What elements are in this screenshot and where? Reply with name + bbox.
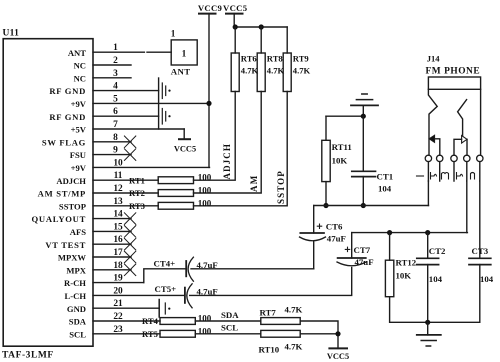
wire pin 16 VT TEST <box>93 243 131 245</box>
junction dot pin5/VCC9 <box>206 101 211 106</box>
svg-text:100: 100 <box>198 186 212 196</box>
capacitor CT2 104 <box>417 233 446 323</box>
connector J14 FM PHONE label <box>426 54 481 77</box>
svg-text:RT1: RT1 <box>129 175 145 185</box>
wire pin 2 NC <box>93 64 131 66</box>
svg-text:4.7K: 4.7K <box>267 66 285 76</box>
svg-text:RT4: RT4 <box>142 316 159 326</box>
svg-text:CT6: CT6 <box>326 222 343 232</box>
resistor RT5 100 <box>142 326 212 339</box>
wire pin 6 RF GND <box>93 115 159 117</box>
wire jack pin5 to CT3 and ground <box>479 181 481 322</box>
svg-text:VCC9: VCC9 <box>198 3 223 13</box>
chassis ground symbol at pin 21 <box>159 300 170 318</box>
svg-text:FM PHONE: FM PHONE <box>426 67 481 77</box>
resistor RT3 100 <box>129 198 212 211</box>
wire SCL to RT10 <box>195 333 260 335</box>
junction dot CT2 top <box>425 230 430 235</box>
chassis ground symbol at pin 4 <box>162 83 170 99</box>
svg-text:TAF-3LMF: TAF-3LMF <box>2 351 54 361</box>
junction dot rail RT8 <box>259 24 264 29</box>
svg-text:1: 1 <box>171 30 176 40</box>
X mark pin 15 <box>124 226 135 238</box>
junction dot rail RT6 <box>233 24 238 29</box>
svg-text:U11: U11 <box>3 29 20 39</box>
jack sleeve wire (body right edge) <box>480 89 482 155</box>
X mark pin 14 <box>124 213 135 225</box>
wire jack pin4 to net B <box>466 181 468 233</box>
wire RT11/CT1 top tie <box>326 115 363 117</box>
power symbol VCC5 at pin 7 <box>174 139 196 153</box>
resistor RT11 10K <box>322 116 352 205</box>
wire pin 7 drop <box>183 129 185 139</box>
svg-text:ADJCH: ADJCH <box>56 176 86 186</box>
wire pin 10 +9V <box>93 166 210 168</box>
svg-text:RT6: RT6 <box>241 54 258 64</box>
svg-text:RT2: RT2 <box>129 188 145 198</box>
svg-text:10K: 10K <box>396 271 412 281</box>
wire pin 13 SSTOP <box>93 205 158 207</box>
power symbol VCC5 bottom <box>327 348 349 361</box>
svg-text:AM: AM <box>249 175 259 192</box>
svg-text:ADJCH: ADJCH <box>222 143 232 180</box>
wire SSTOP net RT9 to RT3 <box>194 92 288 206</box>
X mark pin 18 <box>124 264 135 276</box>
jack pin circle 3 <box>451 155 457 161</box>
svg-text:100: 100 <box>198 314 212 324</box>
resistor RT6 4.7K <box>231 27 258 92</box>
svg-text:RT8: RT8 <box>267 54 284 64</box>
jack mount squiggle marks <box>417 173 475 180</box>
svg-text:GND: GND <box>67 304 86 314</box>
svg-text:SSTOP: SSTOP <box>276 170 286 204</box>
wire R-CH line CT4 to CT6 <box>191 268 314 270</box>
svg-text:RT12: RT12 <box>396 258 417 268</box>
resistor RT1 100 <box>129 173 212 186</box>
svg-text:ANT: ANT <box>68 48 86 58</box>
capacitor CT6 47uF <box>300 206 346 269</box>
wire ADJCH net RT6 to RT1 <box>194 92 236 181</box>
svg-text:RT10: RT10 <box>259 345 280 355</box>
svg-text:4.7K: 4.7K <box>241 66 259 76</box>
resistor RT10 4.7K <box>259 330 303 354</box>
wire RT10 right to junction <box>300 333 338 335</box>
wire pin 4 RF GND <box>93 90 159 92</box>
connector ANT pin 1 <box>171 30 197 77</box>
wire VCC9 vertical to pins 5 and 10 <box>208 14 210 168</box>
capacitor CT5 4.7uF <box>155 284 218 308</box>
wire pin 3 NC <box>93 77 131 79</box>
ground (earth) top <box>351 94 378 105</box>
svg-text:CT2: CT2 <box>429 246 446 256</box>
svg-text:47uF: 47uF <box>355 257 374 267</box>
ground (earth) bottom <box>417 322 441 346</box>
connector J14 body <box>428 77 480 89</box>
svg-text:104: 104 <box>480 274 494 284</box>
svg-text:CT1: CT1 <box>377 172 394 182</box>
svg-text:L-CH: L-CH <box>65 291 87 301</box>
svg-text:CT4+: CT4+ <box>154 259 176 269</box>
junction dot CT1 bottom on net A <box>361 203 366 208</box>
svg-text:47uF: 47uF <box>327 234 346 244</box>
resistor RT2 100 <box>129 186 212 199</box>
wire pin 19 jog up <box>144 269 185 283</box>
junction dot ground line <box>425 320 430 325</box>
svg-text:RT11: RT11 <box>332 142 352 152</box>
svg-text:QUALYOUT: QUALYOUT <box>32 214 86 224</box>
wire pin 14 QUALYOUT <box>93 218 131 220</box>
svg-text:R-CH: R-CH <box>64 278 86 288</box>
wire pin 11 ADJCH <box>93 179 158 181</box>
X mark pin 8 <box>124 136 135 148</box>
wire pin 23 SCL <box>93 333 160 335</box>
wire AM net RT8 to RT2 <box>194 92 262 194</box>
svg-text:4.7K: 4.7K <box>285 342 303 352</box>
svg-text:SCL: SCL <box>69 329 86 339</box>
svg-text:1: 1 <box>182 50 187 60</box>
IC U11 TAF-3LMF <box>2 29 93 361</box>
wire pin 22 SDA <box>93 320 160 322</box>
resistor RT8 4.7K <box>257 27 284 92</box>
svg-text:AFS: AFS <box>70 227 86 237</box>
svg-text:10K: 10K <box>332 156 348 166</box>
svg-text:RT9: RT9 <box>293 54 309 64</box>
svg-text:SCL: SCL <box>221 323 238 333</box>
svg-text:SDA: SDA <box>221 310 239 320</box>
capacitor CT1 104 <box>352 116 393 205</box>
wire pin 1 ANT <box>93 51 171 53</box>
wire pin 21 GND <box>93 307 159 309</box>
svg-text:FSU: FSU <box>70 150 86 160</box>
wire VCC5 rail to RT6 RT8 RT9 <box>234 26 287 28</box>
wire pin 8 SW FLAG <box>93 141 131 143</box>
svg-text:RT3: RT3 <box>129 201 145 211</box>
svg-text:+9V: +9V <box>71 163 87 173</box>
junction dot SDA/SCL pullup <box>335 331 340 336</box>
svg-text:NC: NC <box>74 61 86 71</box>
capacitor CT4 4.7uF <box>154 257 218 281</box>
svg-text:MPXW: MPXW <box>58 253 87 263</box>
resistor RT9 4.7K <box>283 27 310 92</box>
svg-text:100: 100 <box>198 173 212 183</box>
jack pin circle 1 <box>425 155 431 161</box>
wire pin 7 +5V <box>93 128 184 130</box>
chassis ground symbol at pin 6 <box>162 109 170 125</box>
jack pin circle 2 <box>437 155 443 161</box>
svg-text:VCC5: VCC5 <box>174 145 196 154</box>
svg-text:+9V: +9V <box>71 99 87 109</box>
pin numbers 1-23 <box>113 43 123 335</box>
wire pin 18 MPX <box>93 269 131 271</box>
jack tip contact (left spring) <box>428 89 437 155</box>
svg-text:MPX: MPX <box>66 265 86 275</box>
jack pin circle 4 <box>464 155 470 161</box>
svg-text:NC: NC <box>74 73 86 83</box>
X mark pin 16 <box>124 238 135 250</box>
wire pin 19 R-CH <box>93 282 144 284</box>
svg-text:SW FLAG: SW FLAG <box>42 137 86 147</box>
svg-text:ANT: ANT <box>171 67 191 77</box>
wire pin 15 AFS <box>93 230 131 232</box>
svg-text:100: 100 <box>198 198 212 208</box>
svg-text:104: 104 <box>378 184 392 194</box>
junction dot ground tie <box>361 114 366 119</box>
resistor RT7 4.7K <box>260 305 303 325</box>
svg-text:RF GND: RF GND <box>49 112 86 122</box>
resistor RT12 10K <box>385 233 479 323</box>
svg-text:VT TEST: VT TEST <box>45 240 86 250</box>
svg-text:RT7: RT7 <box>260 308 277 318</box>
X mark pin 17 <box>124 251 135 263</box>
capacitor CT3 104 <box>469 246 494 284</box>
svg-text:AM ST/MP: AM ST/MP <box>38 189 86 199</box>
wire net B (phone ring line) <box>352 232 468 234</box>
wire net A (phone sleeve line) <box>314 205 429 207</box>
X mark pin 9 <box>124 149 135 161</box>
svg-text:CT5+: CT5+ <box>155 284 177 294</box>
wire VCC5 drop to rail <box>233 14 235 27</box>
svg-text:4.7K: 4.7K <box>285 305 303 315</box>
svg-text:100: 100 <box>198 326 212 336</box>
wire L-CH line CT5 to CT7 <box>190 268 352 296</box>
power symbol VCC5 top <box>223 3 248 14</box>
wire pin 17 MPXW <box>93 256 131 258</box>
svg-text:SSTOP: SSTOP <box>59 201 86 211</box>
wire jack pin1 to net A <box>427 181 429 206</box>
wire pin 20 L-CH <box>93 294 185 296</box>
svg-text:J14: J14 <box>427 54 441 64</box>
wire pin 5 +9V <box>93 102 209 104</box>
jack switch arrow right <box>454 136 467 156</box>
svg-text:SDA: SDA <box>69 317 87 327</box>
jack switch arrow left <box>429 135 440 155</box>
wire ground stub down <box>362 105 364 116</box>
svg-text:104: 104 <box>429 274 443 284</box>
junction dot RT11 bottom on net A <box>323 203 328 208</box>
jack pin circle 5 <box>477 155 483 161</box>
wire RT7 right to VCC5 <box>300 321 338 348</box>
svg-text:RT5: RT5 <box>142 329 158 339</box>
junction dot RT12 top <box>387 230 392 235</box>
svg-text:4.7K: 4.7K <box>293 66 311 76</box>
svg-text:CT7: CT7 <box>354 245 371 255</box>
svg-text:RF GND: RF GND <box>49 86 86 96</box>
jack ring contact (right spring) <box>458 100 467 136</box>
svg-text:VCC5: VCC5 <box>223 3 248 13</box>
wire SDA to RT7 <box>195 320 260 322</box>
wire jack pin stubs below circles <box>428 162 479 181</box>
power symbol VCC9 <box>198 3 223 14</box>
capacitor CT7 47uF <box>337 233 374 267</box>
wire pin 9 FSU <box>93 154 131 156</box>
svg-text:VCC5: VCC5 <box>327 352 349 361</box>
resistor RT4 100 <box>142 314 212 327</box>
wire pin 12 AM ST/MP <box>93 192 158 194</box>
wire RF GND bus pins 4-7 <box>158 78 160 129</box>
svg-text:+5V: +5V <box>71 125 87 135</box>
